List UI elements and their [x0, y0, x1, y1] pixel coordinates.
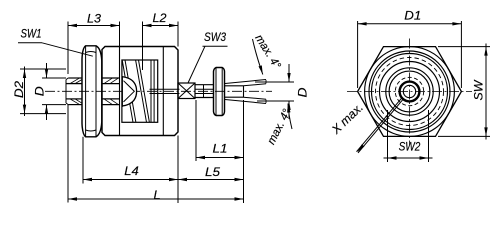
end view centerlines: [347, 39, 472, 145]
spindle ball end: [122, 76, 136, 107]
centerline side view: [45, 90, 272, 92]
threaded spindle D2 left end: [66, 78, 82, 105]
svg-text:SW: SW: [472, 79, 486, 101]
thread circle dashed: [376, 58, 444, 126]
svg-text:L1: L1: [213, 142, 228, 156]
svg-text:SW1: SW1: [21, 26, 42, 40]
jam nut outline: [214, 68, 225, 116]
circle r23.7: [386, 68, 433, 115]
stud thread: [195, 85, 214, 98]
dimension L3: [68, 11, 120, 74]
circle r30: [380, 62, 440, 122]
dimension L4: [83, 136, 178, 204]
dimension D left: [33, 63, 66, 120]
svg-text:L: L: [154, 188, 161, 202]
housing body outline: [102, 47, 178, 136]
svg-text:L2: L2: [153, 11, 167, 25]
svg-text:L4: L4: [124, 164, 139, 178]
dashed circle r14: [395, 77, 423, 105]
SW2 circle: [389, 71, 430, 112]
dimension SW2: [384, 110, 433, 162]
dimension L: [68, 100, 244, 203]
svg-text:D: D: [33, 86, 47, 96]
hexagon body end view: [358, 47, 462, 137]
hex nut SW1 outline: [82, 46, 102, 137]
label SW3: [188, 30, 228, 83]
svg-text:D: D: [296, 87, 310, 97]
label max 4 lower: [266, 104, 294, 147]
inscribed circle: [365, 47, 455, 137]
label SW1: [18, 26, 93, 56]
chamfer circle 1: [369, 51, 450, 132]
thrust pin: [225, 86, 244, 97]
svg-text:SW2: SW2: [399, 140, 421, 154]
svg-text:D1: D1: [404, 8, 421, 22]
inner pin shaft: [150, 89, 180, 93]
spring coil bar 1: [122, 60, 136, 122]
label max 4 upper: [252, 33, 283, 75]
svg-text:SW3: SW3: [204, 30, 226, 44]
svg-text:L3: L3: [87, 11, 101, 25]
spindle thread runout left: [70, 78, 82, 104]
bore inner circle: [403, 85, 415, 97]
label X max leader: [328, 97, 403, 152]
bore ring thick: [400, 82, 420, 102]
dimension L5: [178, 165, 244, 181]
spring seat plates: [151, 60, 154, 122]
housing joint line right: [162, 47, 164, 136]
dimension D right: [255, 64, 310, 119]
dimension D2: [12, 67, 66, 117]
dimension L2: [143, 11, 179, 70]
spring coil bar 2: [136, 60, 150, 122]
jam nut facet lines: [216, 68, 222, 115]
dimension D1: [358, 8, 462, 88]
dimension SW: [438, 44, 490, 140]
dimension L1: [196, 100, 244, 161]
stud flats SW3 box: [178, 83, 195, 99]
spring housing window: [122, 60, 158, 122]
svg-text:D2: D2: [12, 81, 26, 98]
chamfer circle 2: [372, 54, 448, 130]
svg-text:L5: L5: [205, 165, 220, 179]
hex nut SW1 facet lines: [86, 46, 96, 137]
spindle thread right of nut: [102, 78, 120, 105]
housing joint line: [119, 47, 121, 136]
pin tilt tolerance lines: [225, 80, 266, 104]
